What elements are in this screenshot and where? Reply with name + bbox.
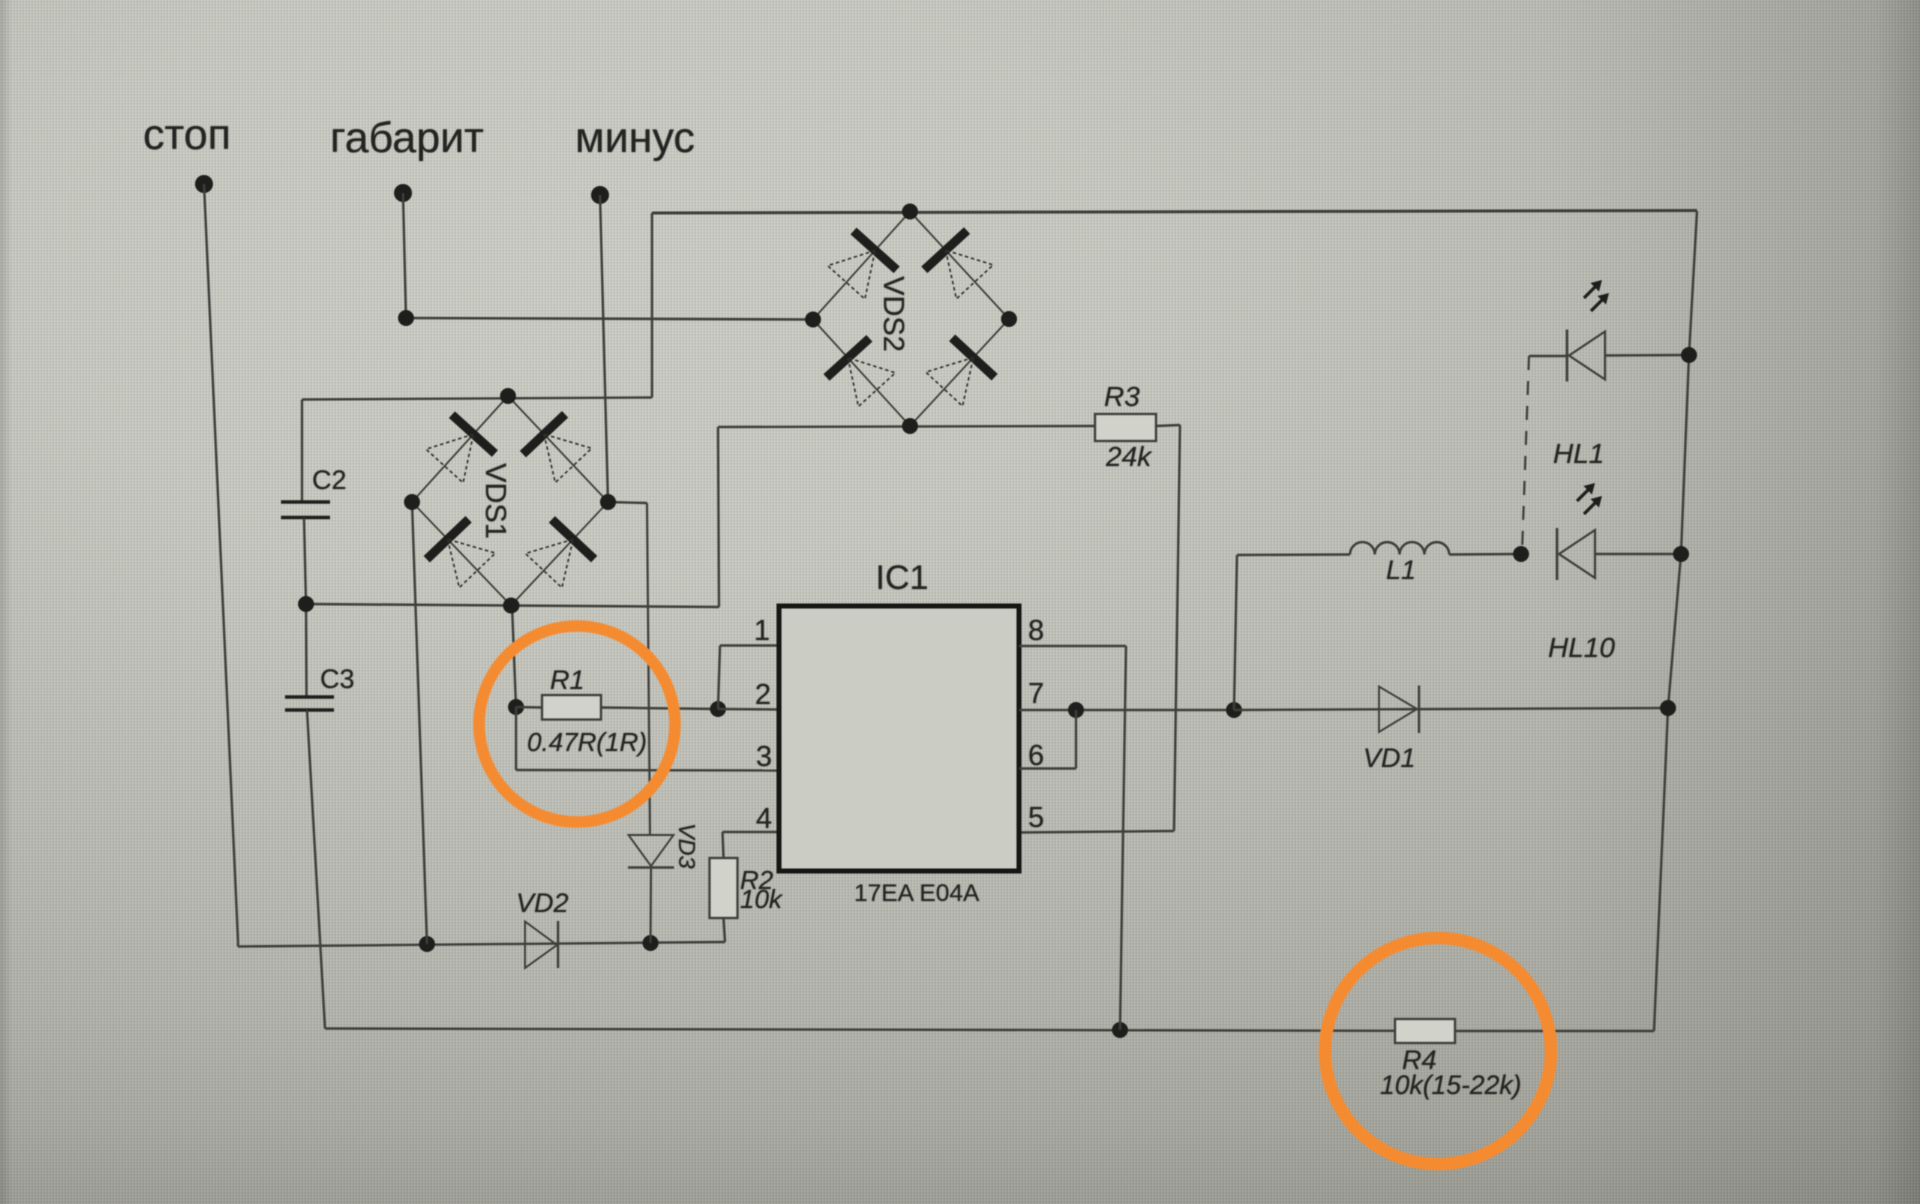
svg-text:габарит: габарит: [330, 114, 484, 162]
junction HL10 left: [1513, 546, 1529, 562]
node стоп terminal: [195, 175, 213, 193]
wire pin7 bus left: [1019, 709, 1234, 711]
wire top bus left drop: [651, 213, 653, 398]
capacitor C3: [285, 697, 334, 710]
op-amp U IC1 body: [779, 606, 1019, 871]
diode VD2: [525, 921, 558, 968]
svg-text:3: 3: [756, 741, 772, 773]
resistor R1: [542, 695, 601, 720]
svg-text:17EA E04A: 17EA E04A: [854, 880, 980, 907]
wire top bus: [652, 211, 1697, 214]
node габарит terminal: [394, 184, 412, 202]
bridge diode VDS1 top-left: [426, 415, 495, 483]
junction pin2 node: [710, 701, 726, 717]
wire pin8: [1019, 645, 1126, 647]
wire HL1 left stub: [1529, 355, 1567, 357]
svg-text:2: 2: [755, 679, 771, 711]
wire C3 top lead: [305, 604, 308, 696]
svg-text:VDS2: VDS2: [877, 276, 909, 352]
wire R1 left lead: [516, 706, 542, 709]
wire L1 left lead: [1237, 553, 1350, 556]
junction VDS2 right: [1001, 311, 1017, 327]
wire VD2 bus: [238, 942, 725, 947]
wire mid bus: [306, 604, 719, 607]
svg-text:VD3: VD3: [674, 823, 700, 869]
svg-text:VD2: VD2: [516, 888, 569, 918]
svg-text:стоп: стоп: [143, 111, 231, 159]
wire габарит down: [403, 193, 406, 318]
junction габарит corner: [398, 310, 414, 326]
junction bottom bus / pin8: [1112, 1022, 1128, 1038]
wire pin5: [1019, 831, 1174, 833]
svg-text:0.47R(1R): 0.47R(1R): [527, 727, 647, 757]
junction VDS1 left: [404, 494, 420, 510]
junction VDS2 top: [902, 204, 918, 220]
diode VD1: [1379, 686, 1419, 734]
resistor R4: [1395, 1019, 1455, 1043]
resistor R2: [710, 858, 738, 918]
bridge diode VDS2 bottom-left: [827, 338, 896, 406]
wire VD3 to VD2 bus: [649, 868, 652, 943]
wire down to VD3: [647, 503, 650, 835]
wire R2 bottom lead: [724, 918, 726, 942]
svg-text:5: 5: [1028, 802, 1044, 834]
wire pin6 up: [1075, 710, 1077, 769]
wire right edge bus: [1654, 211, 1697, 1031]
wire bottom bus left: [325, 1029, 1395, 1031]
junction pin7 / L1 branch: [1226, 702, 1242, 718]
wire габарит bus to VDS2 left node: [406, 318, 814, 320]
svg-text:10k: 10k: [740, 884, 784, 914]
svg-text:1: 1: [754, 615, 770, 647]
svg-text:VD1: VD1: [1363, 743, 1416, 773]
bridge diode VDS1 top-right: [523, 414, 592, 482]
wire R2 top lead: [723, 832, 724, 858]
wire pin8 down to bottom bus: [1120, 646, 1126, 1030]
svg-text:HL1: HL1: [1553, 438, 1604, 469]
capacitor C2: [281, 502, 330, 518]
wire pin7 bus right: [1234, 708, 1668, 710]
wire VDS1 top bus: [302, 398, 652, 400]
wire VDS1 bottom to R1: [512, 606, 516, 708]
bridge rectifier VDS1: [412, 396, 508, 502]
wire pin1: [720, 644, 779, 646]
bridge diode VDS2 top-left: [828, 231, 897, 299]
svg-text:IC1: IC1: [876, 559, 929, 597]
bridge diode VDS2 top-right: [924, 231, 993, 299]
bridge diode VDS1 bottom-left: [427, 519, 496, 587]
svg-text:L1: L1: [1386, 555, 1416, 585]
LED HL10 lower: [1557, 528, 1595, 580]
junction VDS2 bottom: [902, 418, 918, 434]
wire C3 down to bottom bus: [307, 710, 325, 1029]
wire pin4: [723, 831, 780, 833]
svg-text:R3: R3: [1104, 381, 1140, 412]
junction VDS2 left: [805, 312, 821, 328]
junction VDS1 bottom: [503, 598, 519, 614]
wire pin3: [516, 769, 779, 772]
svg-text:HL10: HL10: [1548, 632, 1615, 663]
junction R1 left: [508, 699, 524, 715]
wire bottom bus right: [1455, 1030, 1654, 1032]
svg-text:R1: R1: [550, 665, 585, 695]
wire VDS1 left node down: [412, 502, 427, 944]
diode VD3: [628, 835, 674, 868]
junction VD1 right: [1660, 700, 1676, 716]
wire pin1 down to pin2 node: [718, 646, 720, 710]
junction HL1 right: [1681, 347, 1697, 363]
wire C2 top lead: [301, 400, 303, 502]
svg-text:6: 6: [1028, 740, 1044, 772]
wire pin2: [718, 708, 779, 711]
svg-text:24k: 24k: [1105, 441, 1153, 472]
bridge rectifier VDS2: [813, 212, 910, 320]
wire минус down to VDS1 right node: [600, 195, 608, 502]
wire C2 bottom lead: [304, 518, 306, 604]
wire VDS1 right stub: [608, 502, 647, 503]
svg-text:минус: минус: [575, 114, 695, 162]
junction pin6/pin7: [1068, 702, 1084, 718]
junction VD2 bus / VDS1 left: [419, 936, 435, 952]
svg-text:7: 7: [1028, 678, 1044, 710]
resistor R3: [1095, 414, 1156, 441]
inductor L1: [1350, 542, 1449, 554]
wire L1 right lead: [1449, 553, 1521, 556]
bridge diode VDS2 bottom-right: [926, 338, 995, 406]
wire L1 branch up: [1234, 555, 1237, 710]
junction VD2 bus / VD3: [643, 935, 659, 951]
wire R3 right: [1156, 425, 1180, 426]
junction VDS1 top: [500, 388, 516, 404]
junction C2/C3 mid bus: [298, 596, 314, 612]
wire HL1 chain dashed: [1522, 356, 1529, 553]
LED HL1 upper: [1567, 330, 1605, 382]
wire R1 right to pin2 node: [601, 708, 718, 710]
wire HL10 right: [1595, 553, 1681, 555]
svg-text:4: 4: [756, 803, 772, 835]
svg-text:C2: C2: [312, 465, 347, 495]
wire стоп down to VD2 bus: [204, 184, 238, 941]
bridge diode VDS1 bottom-right: [525, 519, 594, 587]
svg-text:VDS1: VDS1: [479, 463, 511, 539]
wire R1 left down: [515, 707, 517, 770]
annotation circle around R1: [479, 626, 675, 822]
junction VDS1 right: [600, 494, 616, 510]
wire R3 bus left: [718, 426, 1095, 427]
annotation circle around R4: [1325, 938, 1551, 1164]
svg-text:8: 8: [1028, 615, 1044, 647]
node минус terminal: [591, 186, 609, 204]
wire mid bus up: [718, 427, 719, 607]
svg-text:C3: C3: [320, 664, 355, 694]
wire HL1 right: [1605, 354, 1689, 357]
wire pin6: [1019, 767, 1076, 769]
svg-text:10k(15-22k): 10k(15-22k): [1380, 1070, 1521, 1100]
junction HL10 right: [1673, 546, 1689, 562]
wire R3 right down to pin5: [1174, 425, 1180, 831]
